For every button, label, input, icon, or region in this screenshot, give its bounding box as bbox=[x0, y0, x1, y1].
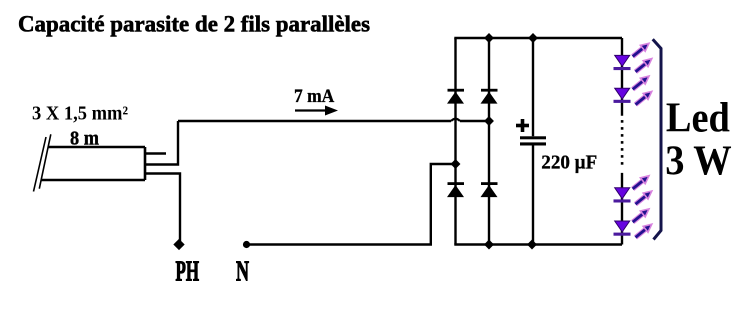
svg-text:PH: PH bbox=[176, 257, 200, 288]
svg-text:220 µF: 220 µF bbox=[541, 151, 597, 173]
svg-text:N: N bbox=[236, 257, 249, 288]
svg-text:7 mA: 7 mA bbox=[294, 86, 335, 107]
svg-text:3 X 1,5 mm²: 3 X 1,5 mm² bbox=[32, 103, 128, 125]
svg-text:Capacité parasite de 2 fils pa: Capacité parasite de 2 fils parallèles bbox=[18, 12, 370, 38]
svg-text:3 W: 3 W bbox=[665, 139, 732, 185]
svg-text:Led: Led bbox=[666, 96, 730, 142]
